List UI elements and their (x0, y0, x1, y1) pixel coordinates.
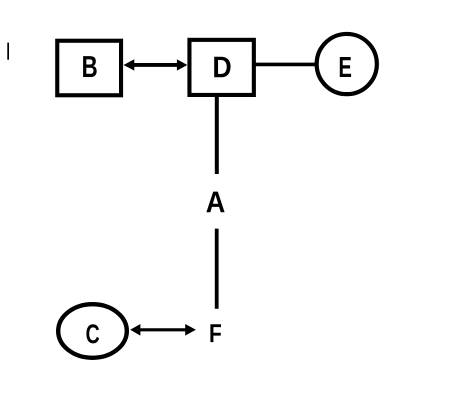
label I (7, 43, 9, 60)
node F (210, 324, 221, 342)
double arrow B-D (124, 59, 188, 70)
node A (206, 192, 224, 213)
box D (189, 40, 253, 95)
wire D-E (255, 63, 317, 67)
letter C (86, 324, 99, 343)
wire D-A (215, 95, 219, 174)
ellipse C (58, 304, 127, 358)
double arrow C-F (130, 324, 196, 336)
wire A-F (215, 229, 219, 309)
letter E (340, 57, 351, 77)
letter B (83, 56, 97, 77)
box B (57, 41, 121, 96)
letter D (214, 57, 230, 77)
circle E (317, 34, 377, 94)
